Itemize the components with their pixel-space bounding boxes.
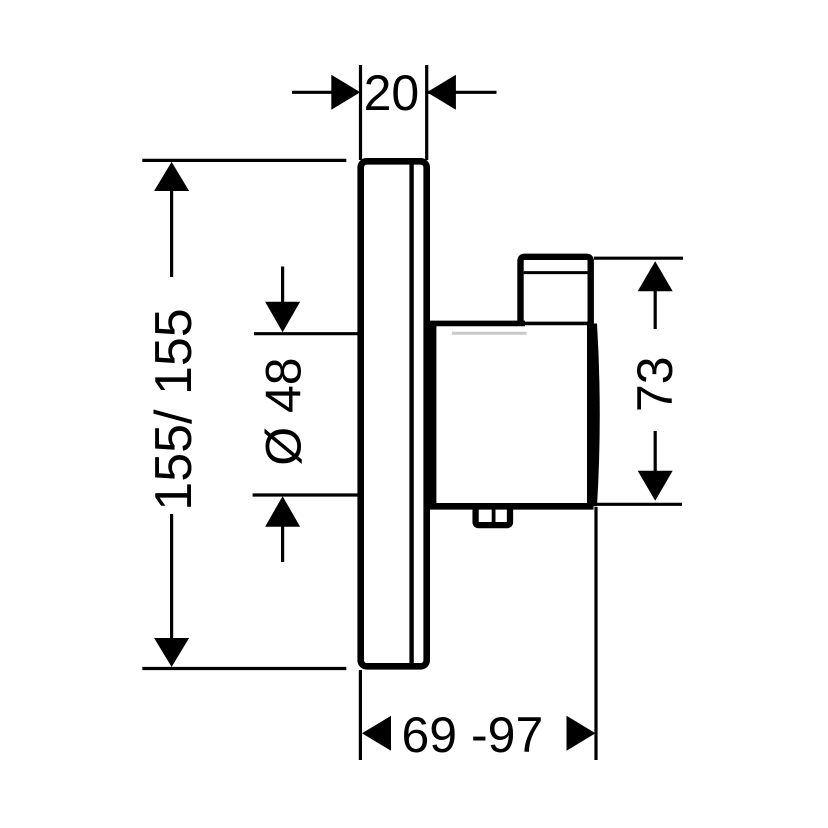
svg-text:73: 73 <box>627 356 683 412</box>
svg-text:155/ 155: 155/ 155 <box>145 308 203 510</box>
svg-text:Ø 48: Ø 48 <box>256 357 312 465</box>
svg-text:69 -97: 69 -97 <box>402 707 544 763</box>
svg-text:20: 20 <box>364 65 420 121</box>
